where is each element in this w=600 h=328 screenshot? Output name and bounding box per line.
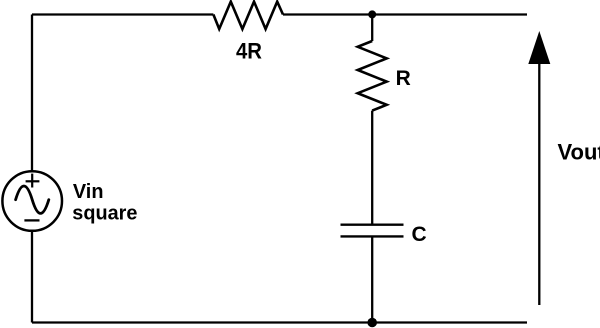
wire top left segment <box>32 13 213 15</box>
resistor R <box>358 41 387 111</box>
Vout arrow line <box>538 63 540 305</box>
voltage source minus sign <box>24 219 39 221</box>
Vout arrowhead <box>528 31 550 64</box>
svg-text:4R: 4R <box>236 38 262 63</box>
wire capacitor to bottom node <box>371 236 373 322</box>
wire bottom <box>32 321 527 323</box>
svg-text:C: C <box>412 223 427 246</box>
label Vin square <box>72 180 137 225</box>
svg-text:Vout: Vout <box>558 140 600 165</box>
capacitor C <box>341 225 404 237</box>
voltage source V1 circle <box>2 171 62 231</box>
wire resistor R to capacitor <box>371 111 373 225</box>
svg-text:Vin: Vin <box>73 180 104 203</box>
resistor 4R <box>213 2 283 29</box>
wire left lower <box>31 231 33 323</box>
voltage source plus sign <box>26 174 40 188</box>
node junction top <box>368 10 376 18</box>
wire left upper <box>31 15 33 172</box>
svg-text:square: square <box>72 201 137 224</box>
wire node to resistor R <box>371 15 373 42</box>
wire top right segment <box>283 13 527 15</box>
voltage source sine wave <box>16 186 49 213</box>
node junction bottom <box>367 318 377 328</box>
svg-text:R: R <box>396 67 411 90</box>
